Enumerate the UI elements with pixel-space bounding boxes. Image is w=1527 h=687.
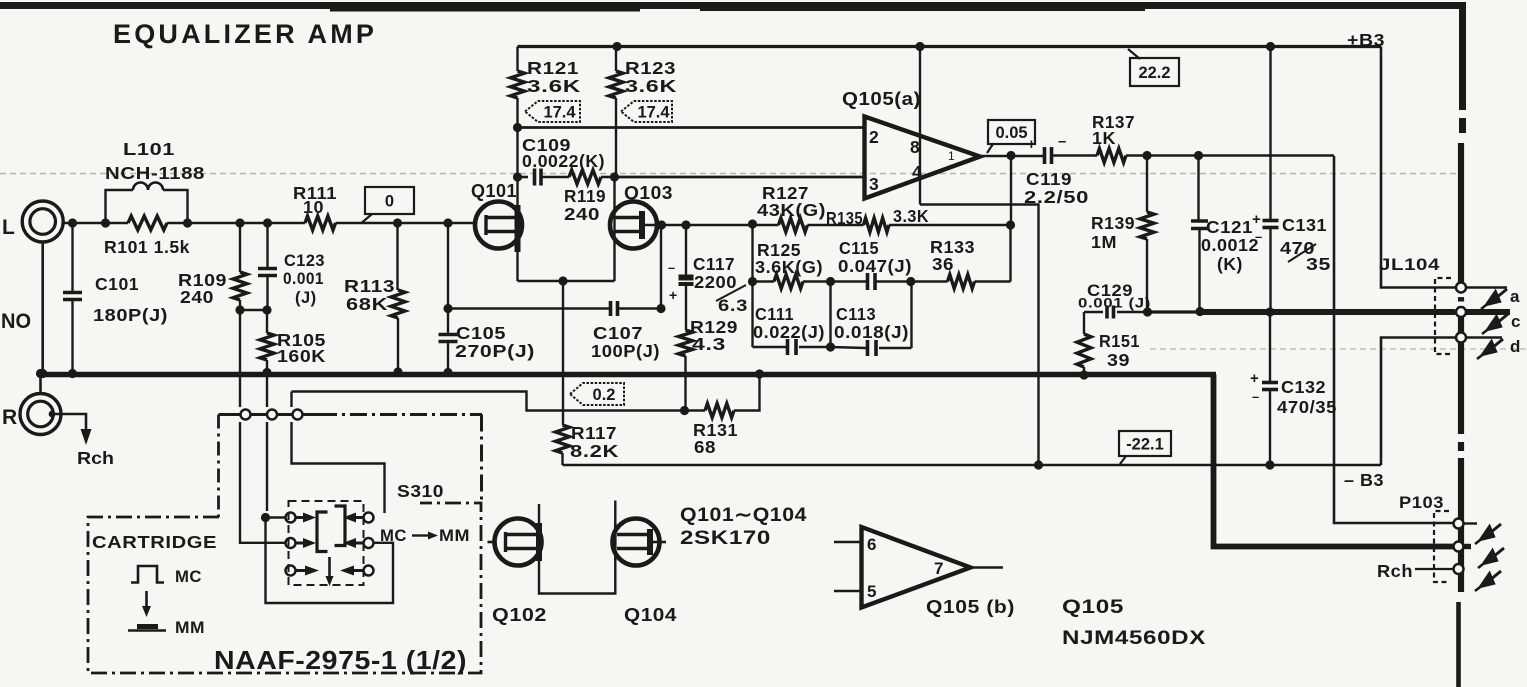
Q104 drain stub [614,501,616,524]
capacitor C111 [751,282,753,348]
svg-text:–: – [1252,389,1260,404]
resistor R111 [305,216,336,230]
svg-text:+: + [669,287,678,303]
wire R127 to R135 [808,224,864,227]
capacitor C105 [447,223,449,309]
svg-text:3: 3 [869,174,879,194]
wire jack R to ground rail [39,374,42,394]
right edge bus dash blob [1459,118,1466,133]
svg-text:10: 10 [303,197,324,217]
callout flag 0.05 [988,120,1035,144]
svg-text:a: a [1510,287,1520,306]
wire R111 to Q101 gate [336,222,478,225]
wire Q103 drain out [642,224,662,227]
connector JL104 bracket [1435,278,1451,354]
svg-text:R117: R117 [571,423,617,443]
svg-text:1: 1 [948,149,955,163]
Q102 gate stub [488,541,497,544]
Q104 gate stub [650,541,666,544]
dash-dot link to pins [217,415,220,518]
wire Q103 drain to C107 [660,225,662,309]
svg-text:Q105(a): Q105(a) [842,88,921,109]
svg-text:Rch: Rch [77,448,114,468]
resistor R133 [948,275,975,289]
svg-text:NAAF-2975-1 (1/2): NAAF-2975-1 (1/2) [214,645,467,675]
wire R131 to ground rail [734,375,760,411]
svg-text:5: 5 [867,582,877,601]
switch row3 left contact [286,566,296,576]
resistor R121 [516,47,518,72]
svg-text:3.3K: 3.3K [893,206,929,226]
right edge bus (main) [1458,143,1464,592]
svg-text:R135: R135 [826,208,863,228]
wire Q101 source down [516,252,518,281]
svg-text:C101: C101 [95,274,139,294]
capacitor C129 [1084,311,1103,313]
svg-text:R123: R123 [625,58,676,78]
capacitor C117 [685,225,687,277]
switch row2 left contact [286,538,296,548]
svg-text:1M: 1M [1091,232,1117,252]
svg-text:R113: R113 [344,276,395,296]
svg-text:+: + [1027,136,1036,153]
svg-text:C107: C107 [593,323,643,343]
wire -B3 to terminal d [1381,338,1456,466]
svg-text:+: + [1252,211,1261,228]
wire feedback box left [751,224,753,282]
capacitor C121 [1197,156,1199,222]
svg-text:P103: P103 [1399,493,1444,512]
P103 terminal 1 [1454,519,1464,529]
wire op-amp output [980,155,1043,158]
svg-text:-22.1: -22.1 [1126,436,1164,454]
svg-text:C119: C119 [1026,169,1072,189]
capacitor C101 [71,223,73,293]
switch row3 right contact [364,566,374,576]
input jack R [20,394,61,435]
wire 0.2 tap line [292,392,706,411]
terminal d [1456,333,1466,343]
svg-text:8.2K: 8.2K [570,441,619,461]
svg-text:MM: MM [175,618,205,637]
svg-text:180P(J): 180P(J) [93,305,168,325]
svg-text:C131: C131 [1282,215,1327,235]
svg-text:3.6K: 3.6K [625,76,677,96]
resistor R123 [609,71,623,98]
connector pins row [219,413,321,416]
svg-text:17.4: 17.4 [543,104,576,122]
switch row1 right contact [364,513,374,523]
svg-text:0.001 (J): 0.001 (J) [1078,295,1151,311]
svg-text:NO: NO [1,310,31,333]
wire feedback top line [662,224,779,227]
svg-text:R119: R119 [564,186,606,206]
svg-text:2200: 2200 [694,272,737,292]
svg-text:S310: S310 [397,481,444,501]
MC symbol [131,566,164,583]
resistor R105 [266,310,268,333]
svg-text:L: L [2,216,15,239]
Q101 channel bar [515,205,521,252]
wire R109-C123 junction [240,309,267,311]
wire 0.2 line to pin3 [290,392,292,408]
inductor L101 bypass loop [106,190,134,223]
svg-text:36: 36 [932,254,954,274]
P103 terminal 2 [1454,542,1464,552]
switch row2 right contact [364,538,374,548]
Q104 channel bar [647,529,653,555]
wire -22.1 line [563,464,1382,467]
wire main input L [63,222,128,225]
resistor R109 [239,223,241,272]
svg-text:68K: 68K [346,294,388,314]
capacitor C119 [1043,147,1047,164]
dash-dot lead to S310 [320,413,482,416]
svg-text:22.2: 22.2 [1138,64,1170,82]
svg-text:0.05: 0.05 [995,124,1027,142]
wire diff pair tail [518,280,615,282]
svg-text:8: 8 [910,137,920,157]
svg-text:JL104: JL104 [1379,255,1440,274]
svg-text:270P(J): 270P(J) [455,341,535,361]
resistor R101 [128,216,167,230]
cartridge dash-dot box [88,503,481,673]
wire jack R to Rch arrow [53,414,86,429]
resistor R127 [779,218,808,232]
wire bus mid (thin part) [1148,310,1201,313]
svg-text:240: 240 [180,287,214,307]
dash-dot S310 down lead [480,415,483,503]
wire R135 to output node [889,224,1011,227]
transistor Q102 [495,519,542,566]
transistor Q104 [613,519,660,566]
svg-text:0.001: 0.001 [283,270,324,288]
capacitor C107 [448,307,610,309]
svg-text:C123: C123 [284,252,325,270]
svg-text:Q105 (b): Q105 (b) [926,597,1015,617]
Q105b pin5 stub [834,590,862,592]
svg-text:0.2: 0.2 [593,386,616,404]
svg-text:0.047(J): 0.047(J) [838,256,912,276]
svg-text:100P(J): 100P(J) [591,341,660,361]
wire Q101 drain column [516,128,518,206]
svg-text:160K: 160K [277,346,326,366]
wire op-amp pin3 line [615,176,865,179]
svg-text:0.0012: 0.0012 [1201,235,1259,255]
svg-text:Q102: Q102 [492,604,547,625]
Q105b pin6 stub [834,541,862,543]
svg-text:C132: C132 [1281,377,1326,397]
svg-text:C115: C115 [839,238,879,258]
thick bus corner to P103 [1214,375,1455,547]
svg-text:R: R [2,406,17,429]
svg-text:17.4: 17.4 [637,104,670,122]
svg-text:Q103: Q103 [624,182,673,203]
callout flag 22.2 [1130,58,1179,86]
capacitor C123 [266,223,268,269]
svg-text:+B3: +B3 [1347,30,1385,50]
svg-text:7: 7 [934,559,944,578]
wire Q102-Q104 source joint [539,561,615,594]
callout flag 0 [365,187,414,214]
svg-text:C105: C105 [456,323,506,343]
svg-text:39: 39 [1107,350,1130,370]
svg-text:–: – [1058,133,1067,150]
svg-text:NJM4560DX: NJM4560DX [1062,628,1206,649]
wire R105 column to switch [266,373,268,408]
svg-text:CARTRIDGE: CARTRIDGE [92,532,217,552]
wire output to P103 [1334,156,1454,523]
svg-text:Q104: Q104 [624,604,677,625]
wire +B3 to terminal a [1381,47,1456,288]
wire Q103 gate column [613,177,615,281]
svg-text:43K(G): 43K(G) [757,200,826,220]
resistor R151 [1083,312,1085,334]
resistor R119 [541,176,569,179]
resistor R139 [1146,156,1148,213]
svg-text:C111: C111 [755,304,794,324]
svg-text:EQUALIZER AMP: EQUALIZER AMP [113,19,377,49]
MC to MM arrow [145,591,148,606]
svg-text:3.6K: 3.6K [527,76,581,96]
svg-text:–: – [1255,229,1263,244]
switch element [317,512,328,552]
op-amp U1 Q105(a) [865,117,981,199]
svg-text:MC: MC [380,526,407,545]
op-amp U1b Q105(b) [862,527,971,608]
P103 terminal 3 Rch [1454,564,1464,574]
svg-text:68: 68 [694,437,716,457]
svg-text:C121: C121 [1206,217,1253,237]
MM symbol [128,629,166,632]
top border bar [0,2,1464,9]
svg-text:Q101∼Q104: Q101∼Q104 [680,505,807,526]
svg-text:(K): (K) [1217,254,1243,274]
svg-text:C117: C117 [693,254,735,274]
wire R109 column to switch [239,310,241,407]
svg-text:d: d [1510,337,1521,356]
svg-text:– B3: – B3 [1344,470,1384,490]
Q102 drain stub [538,504,540,523]
svg-text:Q101: Q101 [471,180,517,201]
svg-text:470/35: 470/35 [1277,397,1337,417]
scan fold line (faint dotted, right) [1150,348,1527,350]
svg-text:3.6K(G): 3.6K(G) [755,257,823,277]
resistor R131 [705,404,734,418]
svg-text:4.3: 4.3 [692,334,726,354]
resistor R125 [774,275,803,289]
capacitor C132 [1269,312,1271,383]
right edge bus (upper) [1459,2,1466,110]
transistor Q101 [475,202,522,249]
svg-text:C113: C113 [836,304,876,324]
svg-text:35: 35 [1306,254,1331,274]
bus dash gaps [1457,293,1465,298]
flag 17.4 (left) [525,101,580,122]
capacitor C113 [910,282,912,348]
wire pin3 to switch right [292,455,385,513]
capacitor C109 [518,176,529,179]
wire S310 box left-bottom [266,518,394,604]
svg-text:Q105: Q105 [1062,597,1124,618]
Q102 channel bar [536,523,542,561]
flag 17.4 (right) [621,101,672,122]
svg-text:1K: 1K [1092,128,1116,148]
wire R101 to R111 [167,222,305,225]
svg-text:Rch: Rch [1377,561,1413,581]
svg-text:R151: R151 [1099,331,1140,351]
capacitor C131 [1269,47,1271,221]
flag 0.2 [570,383,624,405]
wire op-amp pin2 line [518,126,865,129]
+B3 rail [518,45,1382,48]
capacitor C115 [866,273,870,290]
transistor Q103 [610,202,657,249]
resistor R113 [396,223,398,290]
scan fold line (faint dotted, upper) [0,173,1462,175]
wire jack L to ground rail [41,242,44,374]
svg-text:2SK170: 2SK170 [680,528,771,549]
svg-text:2: 2 [869,127,879,147]
callout flag -22.1 [1119,431,1171,456]
svg-text:c: c [1511,312,1521,331]
wire op-amp pin4 supply [920,205,1039,466]
svg-text:240: 240 [564,204,600,224]
svg-text:6.3: 6.3 [718,297,748,315]
svg-text:MC: MC [175,567,202,586]
terminal c [1456,307,1466,317]
svg-text:R139: R139 [1091,213,1135,233]
resistor R135 [864,218,890,232]
svg-text:6: 6 [867,535,877,554]
wire op-amp pin8 supply [919,47,921,205]
wire feedback box right [1009,225,1011,282]
Q103 channel bar [639,211,645,239]
switch row1 left contact [286,513,296,523]
ground rail (thick) [38,372,1216,377]
svg-text:0.022(J): 0.022(J) [753,322,825,342]
svg-text:0: 0 [385,193,394,211]
terminal a [1456,283,1466,293]
Q105b output stub [971,566,1004,568]
svg-text:NCH-1188: NCH-1188 [105,163,205,183]
resistor R129 [685,284,687,330]
input jack L [22,201,63,242]
thick bus to JL104 c [1200,309,1455,315]
svg-text:L101: L101 [123,139,175,159]
right edge bus (lower tail) [1456,602,1461,687]
svg-text:(J): (J) [295,289,317,307]
svg-text:R121: R121 [527,58,579,78]
svg-text:+: + [1250,370,1259,387]
svg-text:–: – [668,260,676,275]
resistor R117 [562,281,564,425]
svg-text:2.2/50: 2.2/50 [1024,187,1089,207]
svg-text:0.018(J): 0.018(J) [834,322,909,342]
resistor R137 [1097,149,1126,163]
wire output to feedback [1010,156,1012,226]
switch dashed box [289,501,364,585]
svg-text:R101 1.5k: R101 1.5k [104,237,190,257]
connector P103 bracket [1434,511,1449,582]
switch actuator arrow [328,557,331,576]
svg-text:MM: MM [439,526,470,545]
